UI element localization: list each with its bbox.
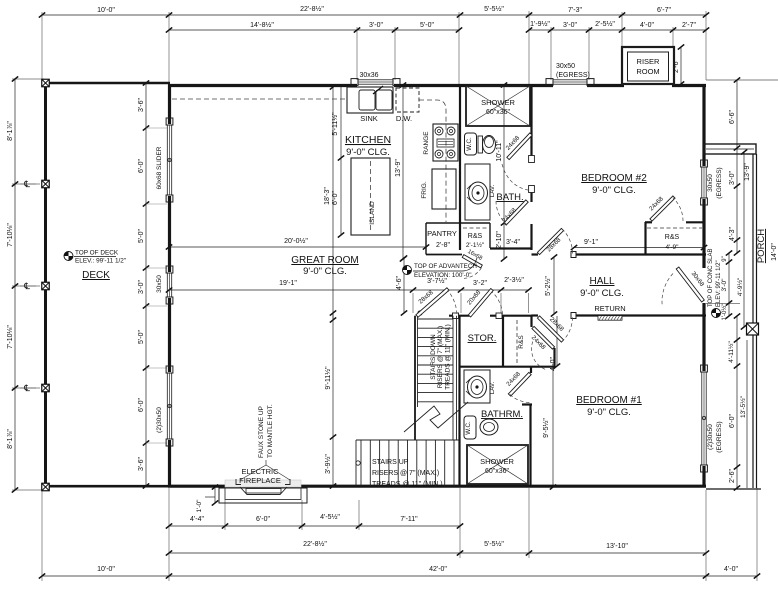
svg-text:4'-4": 4'-4" <box>190 516 204 523</box>
top of deck marker <box>64 252 73 261</box>
window 30x50 (west) <box>166 266 173 273</box>
svg-text:ISLAND: ISLAND <box>369 201 376 225</box>
svg-text:4'-9½": 4'-9½" <box>736 277 744 296</box>
svg-text:9'-1": 9'-1" <box>584 239 598 246</box>
svg-text:9'-11½": 9'-11½" <box>324 366 332 390</box>
svg-text:W.C.: W.C. <box>466 137 473 151</box>
hall south wall / bedroom1 north wall <box>532 313 707 319</box>
bottom dimension row A <box>166 513 463 529</box>
great room dim lines <box>166 237 532 489</box>
stor east wall <box>502 316 504 367</box>
window 30x36 over sink <box>351 79 358 86</box>
pantry walls <box>426 223 490 255</box>
svg-text:14'-0": 14'-0" <box>771 243 778 261</box>
svg-text:1'-0½": 1'-0½" <box>721 304 728 321</box>
bedroom2 closet rod <box>647 227 702 229</box>
bathroom east wall <box>529 404 531 486</box>
top dimension row B <box>166 20 709 33</box>
svg-text:6'-0": 6'-0" <box>138 159 145 173</box>
stor/bathroom dividing wall <box>460 366 555 368</box>
svg-text:60x68 SLIDER: 60x68 SLIDER <box>156 146 163 189</box>
svg-text:6'-7": 6'-7" <box>657 7 671 14</box>
island <box>351 158 390 235</box>
svg-text:PORCH: PORCH <box>756 229 767 263</box>
hall and bedroom dim lines <box>542 239 707 490</box>
svg-text:4'-3": 4'-3" <box>729 227 736 241</box>
svg-text:13'-5½": 13'-5½" <box>739 395 747 418</box>
bath doors 24x68 <box>507 133 532 160</box>
LAV (bathroom) <box>464 370 490 403</box>
svg-text:LAV.: LAV. <box>489 185 496 198</box>
door bedroom2 closet 24x68 <box>650 196 675 221</box>
bottom dimension row B <box>166 540 709 556</box>
closet angled door 24x68 <box>532 326 555 349</box>
fireplace box <box>219 479 307 503</box>
svg-text:STAIRS DOWN: STAIRS DOWN <box>430 334 437 380</box>
window (2)30x50 (west) <box>166 366 173 373</box>
svg-text:13'-9": 13'-9" <box>395 159 402 177</box>
svg-text:3'-0": 3'-0" <box>138 280 145 294</box>
shower (bath) <box>466 86 530 126</box>
svg-text:5'-5½": 5'-5½" <box>484 5 504 13</box>
window 60x68 slider (west) <box>166 118 173 125</box>
svg-text:STOR.: STOR. <box>468 333 497 344</box>
svg-text:5'-2½": 5'-2½" <box>544 276 552 296</box>
door bedroom2 28x68 <box>537 228 563 254</box>
svg-text:60"x36": 60"x36" <box>485 468 510 475</box>
svg-text:20'-0½": 20'-0½" <box>284 237 308 245</box>
svg-text:3'-0": 3'-0" <box>729 171 736 185</box>
svg-text:1'-0": 1'-0" <box>196 499 203 513</box>
WC (bath) <box>465 133 496 155</box>
window 30x50 egress (north, bedroom2) <box>546 79 553 86</box>
svg-text:2'-5½": 2'-5½" <box>595 20 615 28</box>
hall closet rod <box>516 320 518 364</box>
svg-text:2'-10": 2'-10" <box>496 231 503 249</box>
bedroom2 south wall / hall north wall <box>532 252 707 258</box>
svg-text:KITCHEN: KITCHEN <box>345 134 391 146</box>
bath east wall pieces <box>529 85 535 250</box>
svg-text:PANTRY: PANTRY <box>427 229 457 238</box>
kitchen/bath wall <box>459 85 461 250</box>
svg-text:ELEV: 99'-11 1/2": ELEV: 99'-11 1/2" <box>716 260 722 307</box>
svg-text:(EGRESS): (EGRESS) <box>556 72 590 79</box>
svg-text:TREADS @ 11" (MIN.): TREADS @ 11" (MIN.) <box>372 481 443 488</box>
svg-text:STAIRS UP: STAIRS UP <box>372 459 409 466</box>
svg-text:(2)30x50: (2)30x50 <box>156 407 163 433</box>
svg-text:4'-9": 4'-9" <box>666 244 680 251</box>
bottom dimension row C <box>39 566 760 579</box>
svg-text:SHOWER: SHOWER <box>480 457 514 466</box>
svg-text:14'-8½": 14'-8½" <box>250 21 274 29</box>
svg-text:2'-8": 2'-8" <box>436 242 450 249</box>
svg-text:6'-0": 6'-0" <box>138 398 145 412</box>
svg-text:5'-5½": 5'-5½" <box>484 540 504 548</box>
house north wall <box>168 84 706 87</box>
bedroom2 closet walls <box>645 222 704 254</box>
svg-text:30x50: 30x50 <box>156 275 163 293</box>
svg-text:6'-0": 6'-0" <box>729 414 736 428</box>
fireplace 1ft dim <box>205 484 218 505</box>
svg-text:7'-3": 7'-3" <box>568 7 582 14</box>
svg-text:4'-0": 4'-0" <box>724 566 738 573</box>
svg-text:60"x36": 60"x36" <box>486 109 511 116</box>
svg-text:FAUX STONE UP: FAUX STONE UP <box>258 406 265 458</box>
top of advantech marker <box>403 266 412 275</box>
svg-text:3'-2": 3'-2" <box>473 280 487 287</box>
porch east edge <box>753 154 757 488</box>
svg-text:22'-8½": 22'-8½" <box>303 540 327 548</box>
door stor 20x68 <box>468 289 493 318</box>
svg-text:6'-0": 6'-0" <box>332 191 339 205</box>
svg-text:30x50: 30x50 <box>707 174 714 192</box>
closet angled corner jog <box>530 316 532 327</box>
svg-text:R&S: R&S <box>665 234 680 241</box>
svg-text:(EGRESS): (EGRESS) <box>716 421 723 452</box>
svg-text:(2)30x50: (2)30x50 <box>707 424 714 450</box>
deck edge south <box>44 485 170 488</box>
door bedroom1 28x68 <box>537 316 563 342</box>
svg-text:19'-1": 19'-1" <box>279 280 297 287</box>
svg-text:4'-0": 4'-0" <box>640 22 654 29</box>
svg-text:6'-0": 6'-0" <box>256 516 270 523</box>
svg-text:FIREPLACE: FIREPLACE <box>239 476 281 485</box>
top of conc slab marker <box>712 309 721 318</box>
svg-text:9'-0" CLG.: 9'-0" CLG. <box>587 407 631 418</box>
porch south slab edge <box>706 488 761 490</box>
deck posts <box>42 79 50 87</box>
svg-text:R&S: R&S <box>468 233 483 240</box>
pantry door 16x68 <box>462 255 482 268</box>
svg-text:ROOM: ROOM <box>636 67 659 76</box>
svg-text:RISER: RISER <box>637 57 661 66</box>
svg-text:9": 9" <box>722 256 728 261</box>
svg-text:9'-0" CLG.: 9'-0" CLG. <box>346 147 390 158</box>
svg-text:9'-0" CLG.: 9'-0" CLG. <box>592 185 636 196</box>
svg-text:22'-8½": 22'-8½" <box>300 5 324 13</box>
svg-text:4'-11½": 4'-11½" <box>727 341 735 363</box>
svg-text:30x50: 30x50 <box>556 63 575 70</box>
svg-text:9'-5½": 9'-5½" <box>542 418 550 438</box>
svg-text:2'-6": 2'-6" <box>729 469 736 483</box>
bathroom door jog <box>530 367 532 373</box>
svg-text:6'-6": 6'-6" <box>729 110 736 124</box>
kitchen sink counter <box>347 86 393 113</box>
svg-text:HALL: HALL <box>589 276 614 287</box>
svg-text:ELEVATION: 100'-0": ELEVATION: 100'-0" <box>414 272 471 279</box>
svg-text:5'-11½": 5'-11½" <box>331 112 339 136</box>
stairs break line <box>404 402 468 432</box>
svg-text:TOP OF DECK: TOP OF DECK <box>75 250 119 257</box>
door stairwell 28x68 <box>416 288 449 317</box>
svg-text:LAV.: LAV. <box>489 382 496 395</box>
svg-text:5'-0": 5'-0" <box>138 330 145 344</box>
svg-text:RETURN: RETURN <box>594 304 625 313</box>
svg-text:4'-6": 4'-6" <box>396 276 403 290</box>
svg-text:TREADS @ 11" (MIN.): TREADS @ 11" (MIN.) <box>445 324 452 390</box>
svg-text:3'-0": 3'-0" <box>563 22 577 29</box>
svg-text:BEDROOM #2: BEDROOM #2 <box>581 173 647 184</box>
svg-text:W.C.: W.C. <box>465 421 472 435</box>
window (2)30x50 egress (east, bedroom1) <box>701 365 708 372</box>
svg-text:RANGE: RANGE <box>423 131 430 155</box>
top dimension row A <box>39 5 709 18</box>
deck edge west <box>44 83 47 487</box>
window 30x50 egress (east, bedroom2) <box>701 160 708 167</box>
svg-text:BATH.: BATH. <box>496 192 523 203</box>
svg-text:7'-10⅛": 7'-10⅛" <box>7 223 14 247</box>
svg-text:SINK: SINK <box>360 114 378 123</box>
svg-text:10'-0": 10'-0" <box>97 566 115 573</box>
left dimension column <box>7 76 36 492</box>
svg-text:2'-3½": 2'-3½" <box>504 276 524 284</box>
WC (bathroom) <box>464 416 498 439</box>
bathroom door 24x68 <box>508 372 531 396</box>
svg-text:2'-7": 2'-7" <box>682 22 696 29</box>
range <box>433 124 458 161</box>
svg-text:TOP OF CONC SLAB: TOP OF CONC SLAB <box>708 249 714 307</box>
svg-text:10'-0": 10'-0" <box>97 7 115 14</box>
svg-text:2'-1½": 2'-1½" <box>466 241 485 249</box>
svg-text:SHOWER: SHOWER <box>481 98 515 107</box>
svg-text:3'-0": 3'-0" <box>721 278 728 292</box>
svg-text:FRIG.: FRIG. <box>421 181 428 199</box>
deck interior dimension column <box>138 80 167 488</box>
svg-text:(EGRESS): (EGRESS) <box>716 167 723 198</box>
svg-text:3'-0": 3'-0" <box>369 22 383 29</box>
svg-text:3'-6": 3'-6" <box>138 457 145 471</box>
kitchen counter dashed lines <box>172 99 446 222</box>
svg-text:BEDROOM #1: BEDROOM #1 <box>576 395 642 406</box>
house south wall <box>168 485 706 488</box>
svg-text:DECK: DECK <box>82 270 110 281</box>
svg-text:RISERS @ 7" (MAX.): RISERS @ 7" (MAX.) <box>437 326 444 388</box>
svg-text:13'-9": 13'-9" <box>744 163 751 181</box>
svg-text:3'-4": 3'-4" <box>506 239 520 246</box>
svg-text:18'-3": 18'-3" <box>324 187 331 205</box>
svg-text:ELEV.: 99'-11 1/2": ELEV.: 99'-11 1/2" <box>75 258 126 265</box>
svg-text:3'-9½": 3'-9½" <box>324 454 332 474</box>
svg-text:13'-10": 13'-10" <box>606 543 628 550</box>
stairwell west wall <box>414 316 416 440</box>
stor north wall pieces <box>449 313 532 319</box>
porch post <box>747 323 759 335</box>
porch beam north <box>704 144 756 154</box>
svg-text:D.W.: D.W. <box>396 114 412 123</box>
door hall east 30x68 <box>676 267 704 302</box>
LAV (bath) <box>465 164 490 220</box>
svg-text:7'-10⅛": 7'-10⅛" <box>7 325 14 349</box>
deck edge north <box>44 82 170 84</box>
riser room <box>622 47 674 84</box>
shower (bathroom) <box>467 445 528 484</box>
stairwell east wall / stor-bathroom west wall <box>458 316 460 486</box>
bath south wall <box>490 247 532 249</box>
svg-text:8'-1⅞": 8'-1⅞" <box>7 121 14 141</box>
svg-text:GREAT ROOM: GREAT ROOM <box>291 255 358 266</box>
fridge <box>432 169 456 209</box>
svg-text:8'-1⅞": 8'-1⅞" <box>7 429 14 449</box>
fireplace hearth shading <box>225 480 301 487</box>
bathroom north-east wall piece <box>522 403 532 405</box>
svg-text:7'-11": 7'-11" <box>400 516 418 523</box>
svg-text:30x36: 30x36 <box>359 72 378 79</box>
svg-text:5'-0": 5'-0" <box>420 22 434 29</box>
svg-text:3'-6": 3'-6" <box>138 98 145 112</box>
bedroom1 nook wall <box>553 348 555 367</box>
fireplace leaders <box>240 460 290 480</box>
svg-text:1'-9½": 1'-9½" <box>530 20 550 28</box>
svg-text:TOP OF ADVANTECH: TOP OF ADVANTECH <box>414 263 477 270</box>
house west wall <box>168 85 171 487</box>
svg-text:9'-0" CLG.: 9'-0" CLG. <box>580 288 624 299</box>
stairs up treads <box>356 440 459 486</box>
svg-text:5'-0": 5'-0" <box>138 229 145 243</box>
right side dim columns <box>673 44 751 490</box>
svg-text:BATHRM.: BATHRM. <box>481 409 523 420</box>
R&S closet by pantry <box>463 227 488 229</box>
svg-text:4'-5½": 4'-5½" <box>320 513 340 521</box>
stairs down treads <box>418 311 457 440</box>
svg-text:10'-11": 10'-11" <box>496 140 503 162</box>
svg-text:R&S: R&S <box>518 335 525 349</box>
house east wall <box>702 85 705 487</box>
svg-text:42'-0": 42'-0" <box>429 566 447 573</box>
svg-text:RISERS @ 7" (MAX.): RISERS @ 7" (MAX.) <box>372 470 439 477</box>
kitchen dim columns <box>324 82 520 322</box>
dishwasher <box>396 88 419 112</box>
svg-text:9'-0" CLG.: 9'-0" CLG. <box>303 266 347 277</box>
svg-text:TO MANTLE HGT.: TO MANTLE HGT. <box>267 404 274 458</box>
